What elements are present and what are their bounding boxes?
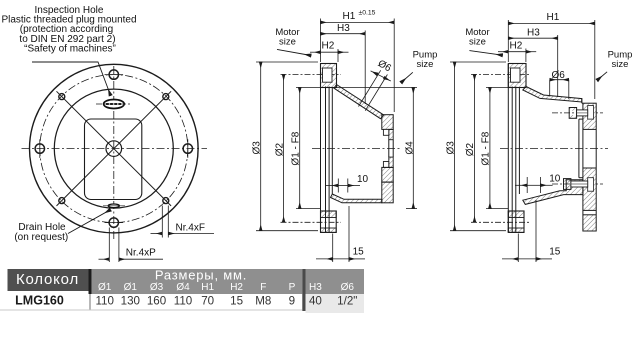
- svg-text:40: 40: [309, 294, 322, 307]
- svg-text:Ø4: Ø4: [176, 282, 190, 293]
- svg-text:Ø1 - F8: Ø1 - F8: [290, 131, 301, 165]
- svg-text:110: 110: [95, 294, 113, 307]
- svg-text:15: 15: [353, 247, 365, 258]
- svg-text:H2: H2: [322, 41, 335, 52]
- svg-text:Ø2: Ø2: [274, 142, 285, 156]
- svg-text:Ø3: Ø3: [150, 282, 164, 293]
- svg-text:15: 15: [549, 247, 561, 258]
- svg-text:size: size: [469, 37, 486, 48]
- svg-text:±0.15: ±0.15: [359, 10, 376, 17]
- svg-text:Ø6: Ø6: [341, 282, 355, 293]
- svg-text:Ø6: Ø6: [552, 70, 566, 81]
- svg-text:110: 110: [174, 294, 192, 307]
- svg-text:P: P: [289, 282, 296, 293]
- svg-text:1/2": 1/2": [337, 294, 357, 307]
- svg-text:Ø3: Ø3: [251, 141, 262, 155]
- svg-text:(on request): (on request): [14, 232, 68, 243]
- svg-text:Ø2: Ø2: [465, 142, 476, 156]
- svg-text:10: 10: [357, 174, 369, 185]
- svg-text:Ø1: Ø1: [124, 282, 138, 293]
- svg-text:70: 70: [201, 294, 214, 307]
- svg-text:size: size: [417, 59, 434, 70]
- svg-text:H3: H3: [527, 28, 540, 39]
- svg-text:130: 130: [121, 294, 140, 307]
- svg-text:Nr.4xP: Nr.4xP: [126, 248, 156, 259]
- svg-text:Размеры, мм.: Размеры, мм.: [155, 268, 247, 283]
- svg-text:Ø1: Ø1: [98, 282, 112, 293]
- svg-text:Ø1 - F8: Ø1 - F8: [481, 131, 492, 165]
- svg-text:H3: H3: [337, 23, 350, 34]
- svg-text:Ø6: Ø6: [376, 58, 393, 74]
- svg-text:“Safety of machines”: “Safety of machines”: [24, 43, 116, 54]
- svg-text:Ø4: Ø4: [404, 141, 415, 155]
- svg-text:15: 15: [230, 294, 243, 307]
- svg-text:H1: H1: [201, 282, 214, 293]
- svg-text:H1: H1: [547, 12, 560, 23]
- svg-text:size: size: [612, 59, 629, 70]
- svg-text:Колокол: Колокол: [16, 271, 79, 288]
- svg-text:LMG160: LMG160: [15, 294, 64, 308]
- svg-text:Nr.4xF: Nr.4xF: [176, 223, 205, 234]
- svg-text:size: size: [279, 37, 296, 48]
- svg-text:H2: H2: [230, 282, 243, 293]
- svg-text:160: 160: [147, 294, 166, 307]
- svg-text:9: 9: [289, 294, 295, 307]
- svg-text:H3: H3: [309, 282, 322, 293]
- svg-text:H2: H2: [510, 40, 523, 51]
- svg-text:M8: M8: [255, 294, 271, 307]
- svg-text:F: F: [260, 282, 266, 293]
- svg-text:H1: H1: [343, 11, 356, 22]
- svg-text:10: 10: [549, 174, 561, 185]
- svg-text:Ø3: Ø3: [445, 141, 456, 155]
